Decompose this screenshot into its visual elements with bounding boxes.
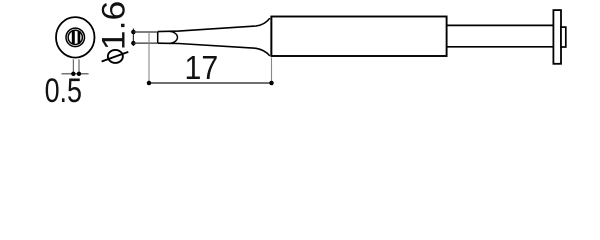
chisel slot bar left (72, 31, 75, 44)
svg-text:0.5: 0.5 (45, 72, 82, 106)
0.5 extension line left (72, 59, 74, 74)
tip body white fill (158, 18, 272, 56)
svg-text:17: 17 (185, 50, 219, 87)
phi1.6 extension line bottom (133, 42, 157, 44)
17 extension line left (148, 33, 150, 83)
front view outer ellipse (56, 17, 95, 58)
17 dimension line (149, 82, 272, 84)
phi1.6 extension line top (133, 31, 157, 33)
svg-text:1.6: 1.6 (96, 1, 132, 51)
front view inner circle (68, 30, 82, 44)
flange (553, 10, 561, 64)
chisel slot bar right (78, 31, 81, 44)
phi symbol slash of diameter label (102, 52, 129, 62)
rod bottom line (447, 46, 554, 48)
0.5 dim dot right (77, 72, 81, 76)
0.5 extension line right (78, 59, 80, 74)
barrel (271, 17, 446, 57)
shoulder edge (270, 17, 272, 57)
phi symbol bowl of diameter label (108, 50, 123, 63)
end nub (561, 27, 566, 47)
17 extension line right (271, 58, 273, 84)
17 dim dot right (269, 81, 274, 86)
0.5 dim dot left (71, 72, 75, 76)
17 dim dot left (147, 81, 152, 86)
phi1.6 dim dot bottom (131, 41, 136, 46)
tip face edge (157, 32, 159, 44)
front view middle circle (66, 28, 85, 47)
chisel flat arc (169, 31, 177, 43)
rod top line (447, 24, 554, 26)
phi1.6 dim dot top (131, 30, 136, 35)
0.5 dimension line (62, 73, 89, 75)
tip bottom outline (158, 43, 270, 56)
tip top outline (158, 18, 270, 31)
phi1.6 dimension vertical line (132, 29, 134, 47)
